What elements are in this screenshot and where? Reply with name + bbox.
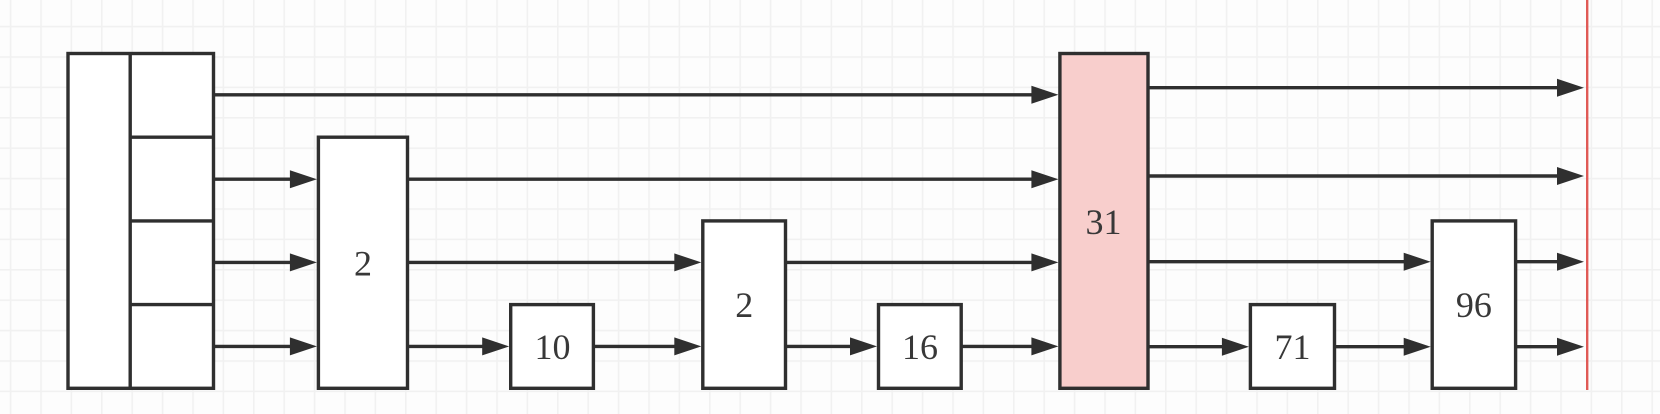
arrow row4: 2 to 16 bbox=[786, 337, 878, 355]
arrow row3: input to 2 bbox=[214, 253, 317, 271]
arrow row2: 31 to right edge bbox=[1148, 167, 1584, 185]
box 31 (pink) bbox=[1060, 54, 1148, 389]
arrow row3: 2 to 2 bbox=[408, 253, 702, 271]
arrow row3: 2 to 31 bbox=[786, 253, 1059, 271]
svg-text:10: 10 bbox=[535, 327, 571, 367]
arrow row4: 31 to 71 bbox=[1148, 338, 1249, 356]
arrow row2: input to 2 bbox=[214, 170, 317, 188]
arrow row3: 31 to 96 bbox=[1148, 253, 1431, 271]
box 96 bbox=[1432, 221, 1515, 388]
arrow row4: 2 to 10 bbox=[408, 337, 510, 355]
box 2 (second) bbox=[703, 221, 786, 388]
arrow row1: input to 31 bbox=[214, 86, 1059, 104]
red boundary line bbox=[1586, 0, 1588, 390]
svg-text:16: 16 bbox=[902, 327, 938, 367]
svg-text:31: 31 bbox=[1086, 202, 1122, 242]
box 2 (first) bbox=[318, 137, 407, 388]
arrow row4: 10 to 2 bbox=[593, 337, 701, 355]
arrow row1: 31 to right edge bbox=[1148, 79, 1584, 97]
box 16 bbox=[879, 305, 962, 389]
box 71 bbox=[1250, 305, 1334, 389]
arrow row4: 96 to right edge bbox=[1516, 338, 1584, 356]
svg-text:2: 2 bbox=[354, 243, 372, 283]
svg-text:2: 2 bbox=[735, 285, 753, 325]
arrow row4: input to 2 bbox=[214, 337, 317, 355]
arrow row3: 96 to right edge bbox=[1516, 253, 1584, 271]
box 10 bbox=[511, 305, 594, 389]
svg-text:71: 71 bbox=[1275, 327, 1311, 367]
input table box (left, 2 columns, right column 4 cells) bbox=[68, 54, 214, 389]
svg-text:96: 96 bbox=[1456, 285, 1492, 325]
arrow row2: 2 to 31 bbox=[408, 170, 1059, 188]
arrow row4: 71 to 96 bbox=[1335, 338, 1431, 356]
arrow row4: 16 to 31 bbox=[961, 337, 1058, 355]
